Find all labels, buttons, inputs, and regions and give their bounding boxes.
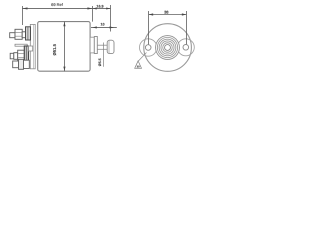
spade terminal lower: middle (19, 59, 24, 69)
spade terminal lower: left (13, 61, 19, 68)
dimension 38 arrow right (182, 13, 187, 15)
svg-text:10: 10 (100, 23, 104, 27)
dimension 69 Ref extension line left (21, 6, 23, 25)
svg-text:16.9: 16.9 (96, 4, 103, 8)
main cylinder body (38, 22, 90, 72)
terminal stud middle: hex nut facet lines (18, 53, 24, 55)
svg-text:69 Ref: 69 Ref (51, 2, 64, 7)
solenoid end cap left (30, 24, 35, 68)
terminal stud middle: upper bracket (29, 46, 33, 51)
terminal stud middle: nut end (10, 53, 14, 59)
terminal stud middle: washer (14, 53, 18, 60)
terminal stud top: washer (22, 32, 25, 38)
plunger boss bar (94, 37, 97, 54)
center boss ring 2 (157, 37, 178, 58)
spade terminal lower: right (24, 60, 30, 68)
mounting hole right (183, 45, 189, 51)
dimension 10 line (91, 26, 117, 28)
dimension D51.5 arrow top (63, 22, 65, 26)
end view big circle (144, 24, 192, 72)
svg-text:Ø51.5: Ø51.5 (52, 43, 57, 55)
center shaft hole (164, 44, 171, 51)
dimension 38 extension line left (148, 11, 150, 45)
dimension 69 Ref line (22, 7, 92, 9)
center boss ring 4 (161, 41, 175, 55)
dimension 38 extension line right (185, 11, 187, 45)
terminal stud top: base (26, 27, 31, 40)
terminal stud top: hex nut facet lines (15, 32, 21, 34)
center boss ring 5 (162, 42, 172, 52)
plunger knob (107, 40, 114, 53)
dimension 16.9 extension line left (91, 6, 93, 22)
triangle symbol label (135, 61, 142, 68)
svg-text:38: 38 (164, 10, 169, 15)
plunger shaft bottom line (97, 48, 107, 50)
dimension 10 arrow left (92, 26, 96, 28)
plunger shaft top line (97, 44, 107, 46)
terminal stud middle: base (24, 46, 28, 62)
dimension D51.5 line (63, 22, 65, 72)
dimension 38 arrow left (149, 13, 154, 15)
terminal stud top: base inner line (27, 27, 29, 39)
dimension D51.5 arrow bottom (63, 67, 65, 71)
center boss ring 3 (159, 39, 177, 57)
svg-text:30: 30 (137, 66, 140, 69)
svg-text:Ø5.5: Ø5.5 (98, 58, 102, 66)
dimension 16.9 arrow right (106, 7, 110, 9)
dimension 16.9 line (92, 7, 110, 9)
mounting hole left (145, 45, 151, 51)
end view ear lobe right (177, 39, 194, 56)
terminal stud middle: hex nut (18, 50, 25, 61)
dimension 16.9 arrow left (93, 7, 97, 9)
dimension 69 Ref arrow left (23, 7, 28, 9)
dimension 69 Ref arrow right (87, 7, 92, 9)
dimension 10 arrow right (110, 26, 114, 28)
plunger knob face line (108, 40, 110, 53)
end cap seam (32, 25, 34, 69)
center boss ring 1 (outer annulus) (155, 35, 180, 60)
dimension 16.9 extension line right (110, 5, 112, 32)
dimension D5.5 extension line (103, 43, 105, 67)
terminal stud top: hex nut (15, 29, 22, 39)
end view ear lobe left (140, 39, 157, 56)
plunger boss plate (90, 37, 94, 53)
terminal stud top: nut end (10, 33, 15, 38)
leader line to mounting hole (139, 53, 147, 61)
connector clip between studs (15, 44, 27, 46)
dimension 38 line (149, 14, 187, 16)
terminal stud middle: base inner line (25, 46, 27, 61)
